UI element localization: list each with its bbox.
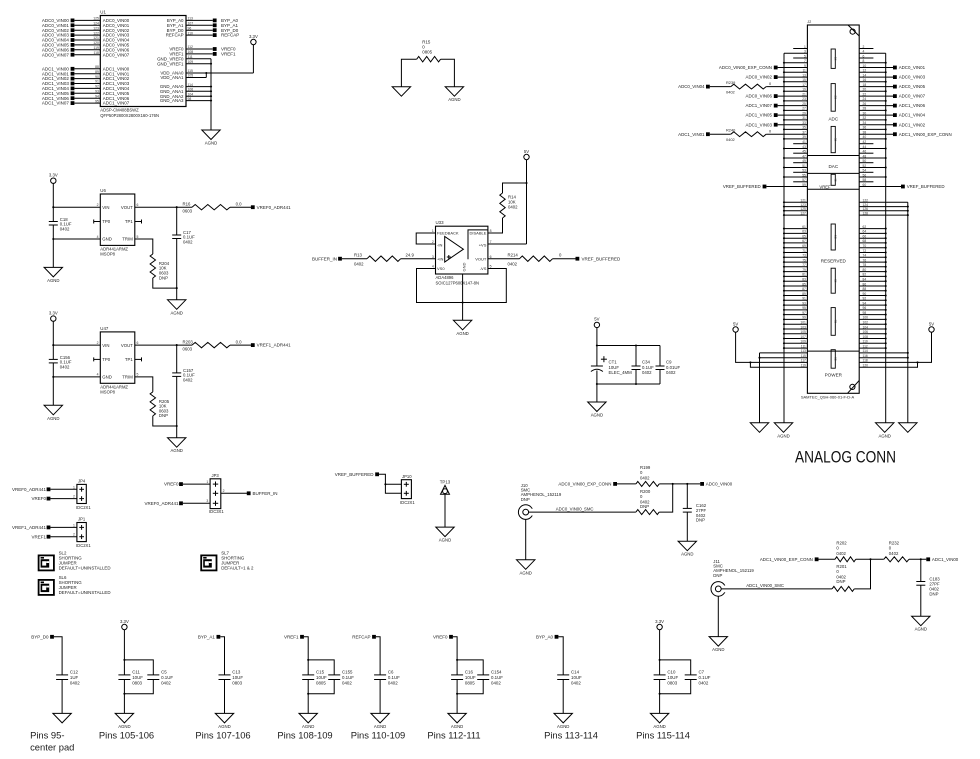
svg-text:85: 85: [802, 282, 806, 286]
J2 pin 120 wire: [859, 362, 917, 367]
svg-text:12: 12: [863, 69, 867, 73]
power 3.3V (U47): [51, 316, 56, 321]
wire R232 to ADC1_VIN00: [909, 558, 926, 560]
svg-text:102: 102: [863, 321, 869, 325]
wire R202 to node: [856, 558, 884, 560]
svg-text:ADC: ADC: [828, 117, 838, 122]
J2 guide pin 126: [859, 210, 908, 212]
svg-text:95: 95: [95, 99, 99, 103]
J2 pin 99 gnd stub: [784, 318, 807, 320]
svg-text:ADC0_VIN07: ADC0_VIN07: [42, 52, 70, 57]
svg-text:REFCAP: REFCAP: [166, 33, 184, 38]
svg-text:127: 127: [800, 211, 806, 215]
J2 pin 112 gnd stub: [859, 347, 886, 349]
svg-text:ADC0_VIN06: ADC0_VIN06: [746, 94, 773, 99]
wire cap bank bottom rail: [597, 383, 660, 385]
ground AGND (C183): [912, 616, 930, 626]
IC U47 ADR441ARMZ body: [100, 332, 135, 383]
J2 pin 30 ADC1_VIN04: [859, 114, 893, 116]
svg-text:Pins 113-114: Pins 113-114: [544, 730, 598, 741]
svg-text:94: 94: [95, 94, 99, 98]
J2 pin 63 gnd stub: [784, 232, 807, 234]
wire JP10 feed: [379, 474, 401, 493]
svg-text:DEFAULT=UNINSTALLED: DEFAULT=UNINSTALLED: [59, 565, 111, 570]
svg-text:7B: 7B: [833, 320, 837, 324]
svg-text:0805: 0805: [316, 680, 326, 685]
J2 pin 34 ADC1_VIN02: [859, 124, 893, 126]
svg-text:5V: 5V: [733, 321, 738, 326]
svg-text:40: 40: [863, 135, 867, 139]
node cap bank bottom: [596, 383, 598, 385]
ground (R15 left): [392, 87, 410, 97]
svg-text:0.1UF: 0.1UF: [699, 675, 711, 680]
svg-text:105: 105: [800, 330, 806, 334]
wire 5V to cap bank: [596, 328, 598, 366]
power 3.3V (pins 115-114): [657, 624, 662, 629]
svg-text:24.9: 24.9: [406, 253, 415, 258]
svg-text:0.1UF: 0.1UF: [342, 675, 354, 680]
svg-text:0402: 0402: [889, 551, 899, 556]
capacitor C13 10UF: [219, 674, 231, 676]
svg-text:GND: GND: [462, 263, 467, 272]
connector J10 SMC: [518, 505, 533, 520]
svg-text:VREF_BUFFERED: VREF_BUFFERED: [723, 184, 761, 189]
svg-text:109: 109: [800, 340, 806, 344]
svg-text:GND: GND: [102, 375, 112, 380]
wire R15 right to AGND: [441, 59, 455, 86]
J2 pin 98 gnd stub: [859, 314, 886, 316]
svg-text:ADA4896: ADA4896: [436, 275, 455, 280]
svg-text:2: 2: [73, 533, 75, 537]
U1 pin 106 GND_ANA1: [186, 90, 211, 92]
connector right AGND bus wire: [885, 53, 887, 423]
node U33 ground: [462, 301, 464, 303]
node VREF_BUFFERED (JP10): [375, 472, 379, 476]
U1 pin 112 VREF0: [186, 48, 213, 50]
J2 pin 108 gnd stub: [859, 338, 886, 340]
svg-text:17: 17: [802, 83, 806, 87]
svg-text:38: 38: [863, 131, 867, 135]
U1 pin 122 ADC0_VIN03: [74, 34, 100, 36]
svg-text:1B: 1B: [833, 57, 837, 61]
J2 pin 103 gnd stub: [784, 328, 807, 330]
wire JP10 pin1: [385, 483, 401, 485]
svg-text:AGND: AGND: [915, 627, 927, 632]
svg-text:REFCAP: REFCAP: [352, 634, 370, 639]
svg-text:77: 77: [802, 263, 806, 267]
svg-text:ADC1_VIN01: ADC1_VIN01: [678, 132, 705, 137]
svg-text:35: 35: [802, 126, 806, 130]
capacitor C10 10UF: [654, 674, 666, 676]
J2 pin 54 stub: [859, 171, 873, 173]
J2 pin 16 gnd stub: [859, 81, 886, 83]
svg-text:106: 106: [863, 330, 869, 334]
J2 pin 64 gnd stub: [859, 232, 886, 234]
svg-text:C12: C12: [70, 670, 79, 675]
wire R16 to VREF0_ADR441: [230, 206, 251, 208]
svg-text:AGND: AGND: [653, 724, 665, 729]
wire R199 to node: [659, 483, 700, 485]
power 5V (J2 right): [929, 327, 934, 332]
svg-text:1: 1: [804, 45, 806, 49]
J2 pin 41 stub: [793, 143, 807, 145]
J2 pin 79 gnd stub: [784, 271, 807, 273]
svg-text:26: 26: [863, 102, 867, 106]
svg-text:107: 107: [800, 335, 806, 339]
U1 pin 108 VREF1: [186, 53, 213, 55]
svg-text:91: 91: [802, 297, 806, 301]
svg-text:57: 57: [802, 178, 806, 182]
svg-text:115: 115: [188, 69, 194, 73]
J2 pin 69 gnd stub: [784, 247, 807, 249]
svg-text:0402: 0402: [183, 240, 193, 245]
U1 pin 109 GND_VREF1: [186, 63, 211, 65]
ground AGND (J10): [517, 560, 535, 570]
svg-text:BUFFER_IN: BUFFER_IN: [253, 491, 278, 496]
svg-text:118: 118: [93, 51, 99, 55]
wire JP4.1: [50, 488, 77, 490]
svg-text:VREF_BUFFERED: VREF_BUFFERED: [907, 184, 945, 189]
J2 pin 82 gnd stub: [859, 275, 886, 277]
svg-text:0.1UF: 0.1UF: [388, 675, 400, 680]
wire U33 GND pin: [462, 274, 464, 320]
U1 pin 95 ADC1_VIN07: [74, 102, 100, 104]
svg-text:2: 2: [73, 495, 75, 499]
J2 pin 59 VREF_BUFFERED: [763, 185, 767, 189]
J2 pin 9 ADC0_VIN00_EXP_CONN: [774, 66, 778, 70]
capacitor C7 0.1UF: [685, 674, 697, 676]
svg-text:4: 4: [97, 373, 99, 377]
U1 pin 124 ADC0_VIN01: [74, 24, 100, 26]
svg-text:3.3V: 3.3V: [249, 34, 258, 39]
svg-text:10UF: 10UF: [316, 675, 327, 680]
J2 pin 102 gnd stub: [859, 323, 886, 325]
J2 pin 53 stub: [793, 171, 807, 173]
svg-text:VIN: VIN: [102, 343, 109, 348]
svg-text:60: 60: [863, 183, 867, 187]
U1 pin 90 ADC1_VIN02: [74, 78, 100, 80]
svg-text:110: 110: [188, 31, 194, 35]
J2 pin 15 gnd stub: [784, 81, 807, 83]
J2 pin 6 stub: [859, 57, 873, 59]
svg-text:108: 108: [863, 335, 869, 339]
J2 pin 67 gnd stub: [784, 242, 807, 244]
svg-text:121: 121: [93, 36, 99, 40]
node VREF1_ADR441: [251, 343, 255, 347]
svg-text:0805: 0805: [465, 680, 475, 685]
capacitor C14 10UF: [557, 674, 569, 676]
svg-text:93: 93: [802, 301, 806, 305]
resistor R13 24.9: [342, 258, 367, 260]
svg-text:88: 88: [863, 287, 867, 291]
svg-text:VREF0: VREF0: [433, 634, 448, 639]
capacitor C12 1UF: [56, 674, 68, 676]
svg-text:SOIC127P600X147-8N: SOIC127P600X147-8N: [436, 281, 480, 286]
svg-text:0803: 0803: [232, 680, 242, 685]
capacitor C162 27PF DNP: [686, 484, 688, 509]
svg-text:73: 73: [802, 254, 806, 258]
svg-text:5: 5: [137, 235, 139, 239]
svg-text:GND_ANA3: GND_ANA3: [160, 98, 184, 103]
ground AGND (U1): [202, 130, 220, 140]
svg-text:0402: 0402: [70, 680, 80, 685]
wire TP13 to AGND: [444, 494, 446, 527]
svg-text:125: 125: [93, 17, 99, 21]
svg-text:BUFFER_IN: BUFFER_IN: [312, 256, 337, 261]
svg-text:28: 28: [863, 107, 867, 111]
svg-text:94: 94: [863, 301, 867, 305]
svg-text:81: 81: [802, 273, 806, 277]
svg-text:98: 98: [863, 311, 867, 315]
wire JP3.2 to BUFFER_IN: [221, 492, 247, 494]
svg-text:AGND: AGND: [218, 724, 230, 729]
svg-text:0.0: 0.0: [236, 340, 243, 345]
J2 pin 51 gnd stub: [784, 167, 807, 169]
ground AGND (J11): [709, 637, 727, 647]
U1 pin 105 VDD_ANA1: [186, 77, 206, 79]
J2 pin 18 ADC0_VIN05: [859, 86, 893, 88]
svg-text:AGND: AGND: [170, 448, 182, 453]
svg-text:ADSP-CM408BSWZ: ADSP-CM408BSWZ: [100, 108, 139, 113]
svg-text:U33: U33: [436, 220, 445, 225]
node VREF1: [300, 635, 304, 639]
svg-text:VREF1: VREF1: [31, 534, 46, 539]
svg-text:14: 14: [863, 73, 867, 77]
svg-text:104: 104: [188, 92, 194, 96]
wire 115-114 branch: [660, 660, 691, 675]
svg-text:C15: C15: [316, 670, 325, 675]
U1 pin 110 REFCAP: [186, 34, 213, 36]
wire left AGND drop: [759, 353, 761, 423]
svg-text:0402: 0402: [642, 370, 652, 375]
svg-text:ADC0_VIN00_SMC: ADC0_VIN00_SMC: [556, 506, 594, 511]
node VREF1 (JP1.2): [47, 535, 51, 539]
node ADC0_VIN00_EXP_CONN: [613, 482, 617, 486]
J2 pin 84 gnd stub: [859, 280, 886, 282]
wire 3.3V to VDD_ANA: [252, 45, 254, 73]
svg-text:55: 55: [802, 173, 806, 177]
svg-text:71: 71: [802, 249, 806, 253]
svg-text:91: 91: [95, 80, 99, 84]
svg-text:-VS: -VS: [480, 266, 487, 271]
J2 guide pin 121: [784, 201, 807, 203]
wire 105-106 branch: [124, 660, 153, 675]
svg-text:0402: 0402: [836, 551, 846, 556]
ground (pins 95): [53, 713, 71, 723]
svg-text:0402: 0402: [354, 262, 364, 267]
J2 pin 94 gnd stub: [859, 304, 886, 306]
svg-text:Pins 110-109: Pins 110-109: [351, 730, 406, 741]
J2 pin 78 gnd stub: [859, 266, 886, 268]
svg-text:C7: C7: [699, 670, 705, 675]
svg-text:90: 90: [863, 292, 867, 296]
J2 pin 65 gnd stub: [784, 237, 807, 239]
node VREF0_ADR441 (JP3.3): [179, 501, 183, 505]
node BYP_D0: [50, 635, 54, 639]
U1 pin 98 GND_ANA3: [186, 100, 211, 102]
wire BYP_A1 down: [220, 637, 224, 675]
wire R14 to DISABLE: [488, 218, 503, 233]
svg-text:VREF_BUFFERED: VREF_BUFFERED: [335, 472, 375, 477]
svg-text:99: 99: [802, 316, 806, 320]
J2 pin 8 gnd stub: [859, 62, 886, 64]
svg-text:VREF1_ADR441: VREF1_ADR441: [257, 343, 292, 348]
svg-text:93: 93: [95, 90, 99, 94]
wire BYP_A0 down: [558, 637, 563, 675]
J2 pin 12 gnd stub: [859, 71, 886, 73]
J2 pin 96 gnd stub: [859, 309, 886, 311]
U1 pin 114 GND_ANA0: [186, 86, 211, 88]
svg-text:ADC1_VIN00: ADC1_VIN00: [932, 557, 959, 562]
svg-text:ADC0_VIN03: ADC0_VIN03: [899, 75, 926, 80]
svg-text:AGND: AGND: [451, 724, 463, 729]
svg-text:ADC0_VIN07: ADC0_VIN07: [103, 52, 130, 57]
svg-text:36: 36: [863, 126, 867, 130]
svg-text:Pins 107-106: Pins 107-106: [195, 730, 250, 741]
wire TRIM (U47): [135, 377, 153, 392]
svg-text:97: 97: [802, 311, 806, 315]
svg-text:C6: C6: [388, 670, 394, 675]
svg-text:89: 89: [95, 70, 99, 74]
node ADC1 mid junction: [869, 558, 871, 560]
svg-text:25: 25: [802, 102, 806, 106]
svg-text:DISABLE: DISABLE: [469, 231, 486, 236]
svg-text:TP1: TP1: [125, 357, 133, 362]
svg-text:111: 111: [188, 55, 193, 59]
svg-text:ADC1_VIN07: ADC1_VIN07: [42, 101, 70, 106]
svg-text:ADC0_VIN01: ADC0_VIN01: [899, 65, 926, 70]
svg-text:122: 122: [93, 31, 99, 35]
svg-text:ADC0_VIN07: ADC0_VIN07: [899, 94, 926, 99]
J2 pin 101 gnd stub: [784, 323, 807, 325]
svg-text:3: 3: [804, 50, 806, 54]
svg-text:22: 22: [863, 92, 867, 96]
wire cap bank top rail: [597, 345, 660, 347]
resistor R14 10K: [503, 183, 527, 193]
svg-text:AGND: AGND: [712, 647, 724, 652]
J2 pin 3 gnd stub: [784, 52, 807, 54]
svg-text:VOUT: VOUT: [121, 205, 133, 210]
J2 pin 70 gnd stub: [859, 247, 886, 249]
svg-text:C14: C14: [571, 670, 580, 675]
U1 pin 88 ADC1_VIN00: [74, 68, 100, 70]
connector J11 SMC: [711, 582, 726, 597]
capacitor C11 10UF: [118, 674, 130, 676]
J2 pin 95 gnd stub: [784, 309, 807, 311]
resistor R199 0: [617, 483, 636, 485]
svg-text:0402: 0402: [508, 205, 518, 210]
ground (J2 left outer): [750, 423, 768, 433]
U1 pin 94 ADC1_VIN06: [74, 97, 100, 99]
svg-text:88: 88: [95, 65, 99, 69]
J2 pin 55 gnd stub: [784, 176, 807, 178]
svg-text:80: 80: [863, 268, 867, 272]
wire REFCAP down: [376, 637, 380, 675]
svg-text:42: 42: [863, 140, 867, 144]
svg-text:37: 37: [802, 131, 806, 135]
svg-text:IDC2X1: IDC2X1: [400, 500, 415, 505]
svg-text:96: 96: [863, 306, 867, 310]
wire JP1.1: [50, 526, 77, 528]
svg-text:39: 39: [802, 135, 806, 139]
J2 pin 21 ADC0_VIN06: [774, 94, 778, 98]
jumper SL2: [39, 555, 54, 570]
svg-text:114: 114: [188, 83, 194, 87]
ground AGND (pins 115-114): [650, 713, 668, 723]
svg-text:46: 46: [863, 150, 867, 154]
svg-text:ANALOG CONN: ANALOG CONN: [795, 449, 896, 467]
J2 pin 61 gnd stub: [784, 228, 807, 230]
svg-text:R16: R16: [183, 202, 191, 207]
J2 pin 10 ADC0_VIN01: [859, 67, 893, 69]
J2 pin 73 gnd stub: [784, 256, 807, 258]
wire VOUT (U47): [135, 344, 192, 346]
svg-text:43: 43: [802, 145, 806, 149]
svg-text:0402: 0402: [571, 680, 581, 685]
U1 pin 123 ADC0_VIN02: [74, 29, 100, 31]
svg-text:2: 2: [863, 45, 865, 49]
svg-text:0402: 0402: [60, 227, 70, 232]
svg-text:4B: 4B: [833, 178, 837, 182]
svg-text:AGND: AGND: [205, 141, 217, 146]
svg-text:113: 113: [188, 17, 194, 21]
J2 pin 52 gnd stub: [859, 167, 886, 169]
J2 guide pin 122: [859, 201, 908, 203]
ground AGND (TP13): [436, 527, 454, 537]
J2 pin 24 gnd stub: [859, 100, 886, 102]
capacitor C17 0.1UF: [176, 207, 178, 235]
ground AGND (U6 left): [44, 267, 62, 277]
svg-text:BYP_D0: BYP_D0: [31, 634, 49, 639]
U1 pin 93 ADC1_VIN05: [74, 92, 100, 94]
wire R13 to +IN: [401, 258, 436, 260]
svg-text:AGND: AGND: [777, 433, 789, 438]
op-amp U33 body: [436, 226, 488, 274]
svg-text:89: 89: [802, 292, 806, 296]
svg-text:AGND: AGND: [557, 724, 569, 729]
svg-text:GND: GND: [102, 237, 112, 242]
svg-text:ADC0_VIN00_EXP_CONN: ADC0_VIN00_EXP_CONN: [558, 482, 611, 487]
svg-text:105: 105: [188, 74, 194, 78]
svg-text:98: 98: [188, 97, 192, 101]
J2 pin 58 stub: [859, 181, 873, 183]
resistor R204 10K DNP: [150, 254, 155, 278]
svg-text:VREF1: VREF1: [221, 52, 236, 57]
svg-text:23: 23: [802, 97, 806, 101]
J2 pin 46 stub: [859, 152, 873, 154]
J2 pin 117 wire to 5V: [736, 332, 808, 362]
svg-text:15: 15: [802, 78, 806, 82]
svg-text:R203: R203: [183, 340, 194, 345]
svg-text:VREF_BUFFERED: VREF_BUFFERED: [582, 256, 622, 261]
node VREF0 (JP3.1): [179, 482, 183, 486]
svg-text:109: 109: [188, 60, 194, 64]
svg-text:63: 63: [802, 230, 806, 234]
node VREF0_ADR441 (JP4.1): [47, 487, 51, 491]
svg-text:10UF: 10UF: [132, 675, 143, 680]
svg-text:9: 9: [804, 64, 806, 68]
svg-text:0603: 0603: [183, 209, 193, 214]
svg-text:6B: 6B: [833, 279, 837, 283]
svg-text:13: 13: [802, 73, 806, 77]
svg-text:ADC0_VIN05: ADC0_VIN05: [899, 84, 926, 89]
svg-text:VREF0: VREF0: [164, 482, 179, 487]
svg-text:5B: 5B: [833, 235, 837, 239]
J2 pin 113 wire to AGND drop: [760, 352, 808, 354]
J2 pin 31 gnd stub: [784, 119, 807, 121]
svg-text:83: 83: [802, 278, 806, 282]
U1 pin 92 ADC1_VIN04: [74, 87, 100, 89]
